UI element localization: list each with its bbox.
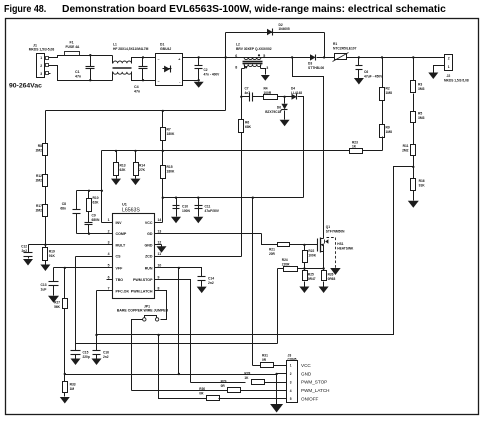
svg-text:PWM.STOP: PWM.STOP xyxy=(133,278,153,282)
svg-text:220R: 220R xyxy=(282,263,290,267)
svg-text:D4: D4 xyxy=(291,87,295,91)
svg-text:GND: GND xyxy=(301,371,312,376)
svg-text:C15: C15 xyxy=(83,351,89,355)
svg-text:R7: R7 xyxy=(167,128,171,132)
svg-text:COMP: COMP xyxy=(116,232,127,236)
svg-text:J2: J2 xyxy=(447,74,451,78)
svg-text:R6: R6 xyxy=(245,121,249,125)
svg-text:GD: GD xyxy=(147,232,153,236)
svg-text:FUSE 4A: FUSE 4A xyxy=(66,45,81,49)
svg-text:1M8: 1M8 xyxy=(386,91,393,95)
svg-text:47n: 47n xyxy=(75,75,81,79)
svg-text:MKDS 1,5/2-5,08: MKDS 1,5/2-5,08 xyxy=(444,78,469,82)
svg-text:C8: C8 xyxy=(62,202,66,206)
svg-text:2: 2 xyxy=(108,230,110,234)
svg-text:47uF/50V: 47uF/50V xyxy=(205,209,220,213)
svg-text:D6: D6 xyxy=(277,106,281,110)
svg-text:91K: 91K xyxy=(49,254,56,258)
svg-text:STTH8L06: STTH8L06 xyxy=(308,66,324,70)
svg-text:R26: R26 xyxy=(328,273,334,277)
svg-text:4: 4 xyxy=(108,252,110,256)
svg-text:R30: R30 xyxy=(199,387,205,391)
svg-text:68K: 68K xyxy=(245,125,252,129)
svg-text:1: 1 xyxy=(290,364,292,368)
svg-text:680N: 680N xyxy=(92,218,101,222)
svg-text:R21: R21 xyxy=(269,248,275,252)
svg-text:C13: C13 xyxy=(41,283,47,287)
svg-text:R27: R27 xyxy=(54,301,60,305)
svg-text:BARE COPPER WIRE JUMPER: BARE COPPER WIRE JUMPER xyxy=(117,309,169,313)
svg-text:TBO: TBO xyxy=(116,278,124,282)
svg-text:R10: R10 xyxy=(93,196,99,200)
svg-text:STF7NM50N: STF7NM50N xyxy=(326,229,345,233)
svg-text:C4: C4 xyxy=(134,85,139,89)
svg-text:3M3: 3M3 xyxy=(418,116,425,120)
svg-text:R2: R2 xyxy=(386,87,390,91)
svg-text:6: 6 xyxy=(108,275,110,279)
svg-text:C1: C1 xyxy=(75,70,80,74)
svg-text:0R68: 0R68 xyxy=(328,277,336,281)
svg-text:C16: C16 xyxy=(103,351,109,355)
svg-text:PWM_STOP: PWM_STOP xyxy=(301,380,327,385)
svg-text:5: 5 xyxy=(290,397,292,401)
svg-text:PWM.LATCH: PWM.LATCH xyxy=(131,289,153,293)
svg-text:C14: C14 xyxy=(208,277,214,281)
svg-text:0R47: 0R47 xyxy=(308,277,316,281)
svg-text:14: 14 xyxy=(158,218,162,222)
svg-text:R24: R24 xyxy=(282,258,288,262)
svg-text:INV: INV xyxy=(116,221,123,225)
svg-text:VFF: VFF xyxy=(116,266,124,270)
svg-text:11: 11 xyxy=(158,252,162,256)
svg-text:RUN: RUN xyxy=(145,266,153,270)
svg-text:VCC: VCC xyxy=(145,221,153,225)
svg-text:8: 8 xyxy=(235,66,237,70)
svg-text:180K: 180K xyxy=(167,132,176,136)
svg-text:C6: C6 xyxy=(364,70,368,74)
svg-text:R1: R1 xyxy=(333,42,337,46)
svg-text:R25: R25 xyxy=(308,273,314,277)
svg-text:~: ~ xyxy=(158,58,160,62)
svg-text:2M2: 2M2 xyxy=(36,179,43,183)
svg-text:3M3: 3M3 xyxy=(418,87,425,91)
svg-text:2M2: 2M2 xyxy=(402,149,409,153)
svg-text:CS: CS xyxy=(116,255,122,259)
svg-text:220p: 220p xyxy=(83,355,90,359)
svg-text:47n - 400V: 47n - 400V xyxy=(204,72,221,76)
svg-text:62K: 62K xyxy=(93,201,100,205)
svg-text:3: 3 xyxy=(290,380,292,384)
svg-text:U1: U1 xyxy=(122,203,127,207)
svg-text:GBU4J: GBU4J xyxy=(160,47,171,51)
svg-text:LL4148: LL4148 xyxy=(291,91,302,95)
svg-text:GND: GND xyxy=(145,243,153,247)
svg-text:R4: R4 xyxy=(264,87,268,91)
svg-text:2M2: 2M2 xyxy=(36,149,43,153)
svg-text:HEATSINK: HEATSINK xyxy=(337,246,354,250)
svg-text:R8: R8 xyxy=(38,144,42,148)
svg-text:R28: R28 xyxy=(244,372,250,376)
svg-text:L2: L2 xyxy=(236,42,240,46)
svg-text:HF 28X14,5X11/M4L7M: HF 28X14,5X11/M4L7M xyxy=(113,47,149,51)
svg-text:MULT: MULT xyxy=(116,243,127,247)
svg-text:BRV 30XEP Q-XXX/002: BRV 30XEP Q-XXX/002 xyxy=(236,47,272,51)
svg-text:47uF - 450V: 47uF - 450V xyxy=(364,74,383,78)
svg-text:62K: 62K xyxy=(120,168,127,172)
svg-text:27K: 27K xyxy=(139,168,146,172)
svg-text:R12: R12 xyxy=(36,174,42,178)
svg-text:1M: 1M xyxy=(70,387,75,391)
svg-text:13: 13 xyxy=(158,230,162,234)
svg-text:2: 2 xyxy=(448,57,450,61)
svg-text:0R: 0R xyxy=(221,384,226,388)
svg-text:20R: 20R xyxy=(269,252,276,256)
svg-text:0R: 0R xyxy=(199,392,204,396)
svg-text:3: 3 xyxy=(40,72,42,76)
svg-text:1N4005: 1N4005 xyxy=(279,27,290,31)
svg-text:Q1: Q1 xyxy=(326,225,330,229)
svg-text:R13: R13 xyxy=(120,164,126,168)
svg-text:~: ~ xyxy=(158,80,160,84)
svg-text:R33: R33 xyxy=(70,383,76,387)
svg-text:0R: 0R xyxy=(262,358,267,362)
svg-text:4: 4 xyxy=(290,389,292,393)
svg-text:PWM_LATCH: PWM_LATCH xyxy=(301,388,330,393)
svg-text:1uF: 1uF xyxy=(41,288,47,292)
svg-text:68n: 68n xyxy=(60,207,66,211)
svg-text:NTC2R5/LE107: NTC2R5/LE107 xyxy=(333,47,357,51)
svg-text:C11: C11 xyxy=(205,205,211,209)
svg-text:VCC: VCC xyxy=(301,363,311,368)
svg-text:R5: R5 xyxy=(418,112,422,116)
svg-text:R9: R9 xyxy=(386,126,390,130)
svg-text:PFC.OK: PFC.OK xyxy=(116,289,130,293)
svg-text:MKDS 1,5/3-5,08: MKDS 1,5/3-5,08 xyxy=(29,47,55,51)
svg-text:1M8: 1M8 xyxy=(386,130,393,134)
svg-text:C10: C10 xyxy=(182,205,188,209)
svg-text:2n2: 2n2 xyxy=(208,281,214,285)
svg-text:1K: 1K xyxy=(352,144,357,148)
svg-text:91K: 91K xyxy=(419,184,426,188)
svg-text:C2: C2 xyxy=(204,68,208,72)
svg-text:ZCD: ZCD xyxy=(145,255,153,259)
svg-text:1K: 1K xyxy=(244,376,249,380)
svg-text:2n2: 2n2 xyxy=(103,355,109,359)
svg-text:1: 1 xyxy=(108,218,110,222)
svg-text:100N: 100N xyxy=(182,209,191,213)
svg-text:100R: 100R xyxy=(264,91,272,95)
svg-text:2M2: 2M2 xyxy=(36,209,43,213)
svg-text:R17: R17 xyxy=(36,204,42,208)
svg-text:R19: R19 xyxy=(49,250,55,254)
svg-text:D1: D1 xyxy=(160,43,164,47)
svg-text:C9: C9 xyxy=(92,214,96,218)
svg-text:D3: D3 xyxy=(308,62,312,66)
svg-text:R31: R31 xyxy=(262,354,268,358)
svg-text:R16: R16 xyxy=(419,179,425,183)
svg-text:180K: 180K xyxy=(167,170,176,174)
svg-text:2: 2 xyxy=(290,372,292,376)
svg-text:R3: R3 xyxy=(418,83,422,87)
svg-text:3: 3 xyxy=(266,66,268,70)
svg-text:2: 2 xyxy=(40,64,42,68)
svg-text:R29: R29 xyxy=(221,380,227,384)
svg-text:6: 6 xyxy=(235,54,237,58)
svg-text:L6563S: L6563S xyxy=(122,208,140,214)
svg-text:9: 9 xyxy=(158,275,160,279)
svg-text:C12: C12 xyxy=(21,244,27,248)
svg-text:CON5: CON5 xyxy=(288,357,297,361)
svg-text:56K: 56K xyxy=(54,305,61,309)
svg-text:1: 1 xyxy=(40,56,42,60)
svg-text:R14: R14 xyxy=(139,164,145,168)
svg-text:HS1: HS1 xyxy=(337,242,343,246)
svg-text:R22: R22 xyxy=(308,249,314,253)
svg-text:L1: L1 xyxy=(113,43,117,47)
svg-text:1: 1 xyxy=(448,65,450,69)
svg-text:R11: R11 xyxy=(403,144,409,148)
svg-text:BZX79C18: BZX79C18 xyxy=(265,110,281,114)
svg-text:R15: R15 xyxy=(167,165,173,169)
svg-text:90-264Vac: 90-264Vac xyxy=(9,83,42,90)
svg-text:100K: 100K xyxy=(308,254,316,258)
svg-text:C7: C7 xyxy=(245,87,249,91)
svg-text:4n7: 4n7 xyxy=(245,91,251,95)
svg-text:2n2: 2n2 xyxy=(22,249,28,253)
svg-text:47n: 47n xyxy=(134,90,140,94)
svg-text:ON/OFF: ON/OFF xyxy=(301,397,319,402)
